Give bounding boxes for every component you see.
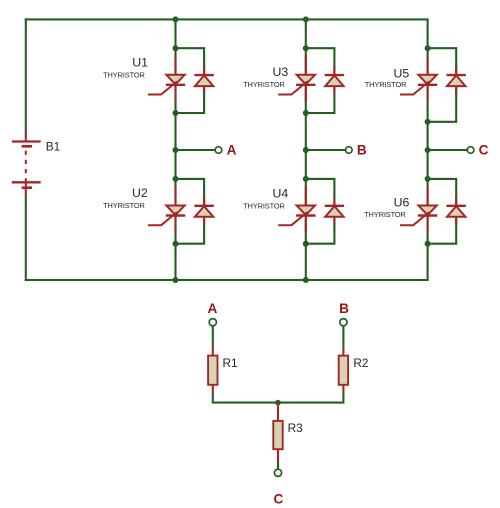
terminal C (load) (274, 469, 281, 476)
junction U2 bottom (173, 241, 179, 247)
thyristor U1 gate (148, 81, 177, 94)
svg-text:A: A (227, 143, 237, 158)
wire R3 to terminal C (277, 462, 279, 469)
thyristor U3 cathode bar (296, 84, 315, 86)
wire U4 cathode lead (red) (305, 215, 307, 233)
wire U3 parallel branch loop (306, 48, 335, 113)
wire U4 parallel branch loop (306, 179, 335, 244)
junction bottom bus / leg A (173, 277, 179, 283)
wire U3 cathode lead (red) (305, 84, 307, 102)
wire U5 parallel branch loop (428, 48, 457, 122)
wire U4 anode lead (red) (305, 186, 307, 206)
svg-text:THYRISTOR: THYRISTOR (243, 201, 285, 210)
svg-text:THYRISTOR: THYRISTOR (365, 80, 407, 89)
diode of U2 body (195, 206, 213, 217)
junction U4 top (303, 176, 309, 182)
wire bottom bus (25, 279, 429, 281)
junction U6 bottom (425, 241, 431, 247)
battery B1 plate long bottom (12, 181, 41, 183)
wire phase A leg vertical (174, 19, 176, 280)
battery B1 bottom lead (red) (25, 182, 27, 196)
thyristor U1 body (166, 75, 184, 85)
svg-text:U2: U2 (132, 186, 148, 200)
svg-text:C: C (479, 143, 489, 158)
diode of U2 cathode bar (194, 205, 213, 207)
junction U5 bottom (425, 119, 431, 125)
junction U1 top (173, 45, 179, 51)
terminal A (load) (209, 319, 216, 326)
battery B1 dashed cells (25, 151, 27, 183)
diode of U1 body (195, 75, 213, 86)
diode of U4 cathode bar (325, 205, 344, 207)
svg-text:B: B (339, 301, 349, 316)
wire U6 diode leads (red) (455, 197, 457, 206)
wire U6 parallel branch loop (428, 179, 457, 244)
svg-text:R3: R3 (288, 421, 304, 435)
thyristor U5 body (418, 75, 436, 85)
thyristor U5 cathode bar (418, 84, 437, 86)
wire phase B leg vertical (305, 19, 307, 280)
wire R2 to star bus (278, 394, 343, 403)
thyristor U2 gate (148, 212, 177, 225)
svg-text:U5: U5 (393, 67, 409, 81)
thyristor U4 gate (278, 212, 307, 225)
thyristor U2 cathode bar (166, 214, 185, 216)
svg-text:R2: R2 (353, 356, 368, 370)
battery B1 plate short top (22, 145, 32, 148)
diode of U3 cathode bar (325, 74, 344, 76)
resistor R2 (339, 356, 348, 385)
diode of U4 body (325, 206, 343, 217)
junction U2 top (173, 176, 179, 182)
diode of U5 cathode bar (447, 74, 466, 76)
wire left rail lower (battery to bottom bus) (25, 197, 27, 282)
thyristor U6 cathode bar (418, 214, 437, 216)
svg-text:C: C (273, 492, 283, 507)
svg-text:U4: U4 (272, 187, 288, 201)
thyristor U5 gate (400, 81, 429, 94)
svg-text:B1: B1 (46, 140, 60, 154)
junction U5 top (425, 45, 431, 51)
resistor R3 top lead (red) (277, 403, 279, 421)
svg-text:U1: U1 (132, 56, 148, 70)
thyristor U1 cathode bar (166, 84, 185, 86)
junction U3 bottom (303, 110, 309, 116)
wire top bus (25, 18, 429, 20)
terminal B (load) (340, 319, 347, 326)
thyristor U3 body (297, 75, 315, 85)
thyristor U6 gate (400, 212, 429, 225)
diode of U6 body (447, 206, 465, 217)
svg-text:R1: R1 (223, 356, 238, 370)
junction top bus / leg A (173, 16, 179, 22)
wire node B stub (306, 149, 346, 151)
wire U1 cathode lead (red) (174, 84, 176, 102)
terminal node B (346, 147, 353, 154)
wire U6 anode lead (red) (427, 186, 429, 206)
battery B1 top lead (red) (25, 132, 27, 142)
battery B1 plate long top (12, 140, 41, 142)
diode of U5 body (447, 75, 465, 86)
terminal node A (215, 147, 222, 154)
junction node C (425, 147, 431, 153)
wire U5 cathode lead (red) (427, 84, 429, 102)
junction star point (275, 400, 281, 406)
wire U6 cathode lead (red) (427, 215, 429, 233)
wire U1 anode lead (red) (174, 55, 176, 75)
thyristor U3 gate (278, 81, 307, 94)
svg-text:THYRISTOR: THYRISTOR (103, 201, 145, 210)
resistor R1 (208, 356, 217, 385)
svg-text:A: A (207, 301, 217, 316)
junction U4 bottom (303, 241, 309, 247)
svg-text:THYRISTOR: THYRISTOR (243, 80, 285, 89)
junction U1 bottom (173, 110, 179, 116)
resistor R3 (273, 421, 282, 449)
wire phase C leg vertical (427, 19, 429, 280)
wire U4 diode leads (red) (333, 197, 335, 206)
junction node B (303, 147, 309, 153)
wire U2 diode leads (red) (203, 197, 205, 206)
wire U3 diode leads (red) (333, 66, 335, 75)
terminal node C (467, 147, 474, 154)
resistor R1 bottom lead (red) (212, 385, 214, 394)
junction U3 top (303, 45, 309, 51)
svg-text:U6: U6 (394, 196, 410, 210)
wire U3 anode lead (red) (305, 55, 307, 75)
battery B1 plate short bottom (22, 186, 32, 189)
diode of U1 cathode bar (194, 74, 213, 76)
thyristor U6 body (418, 206, 436, 216)
junction node A (173, 147, 179, 153)
svg-text:THYRISTOR: THYRISTOR (364, 210, 406, 219)
wire node C stub (428, 149, 468, 151)
resistor R2 top lead (red) (342, 347, 344, 356)
wire U2 anode lead (red) (174, 186, 176, 206)
svg-text:B: B (357, 143, 367, 158)
wire U1 parallel branch loop (176, 48, 205, 113)
svg-text:THYRISTOR: THYRISTOR (103, 70, 145, 79)
wire U1 diode leads (red) (203, 66, 205, 75)
diode of U3 body (325, 75, 343, 86)
resistor R1 top lead (red) (212, 347, 214, 356)
wire left rail upper (to battery) (25, 18, 27, 131)
wire U5 diode leads (red) (455, 66, 457, 75)
thyristor U4 cathode bar (296, 214, 315, 216)
resistor R3 bottom lead (red) (277, 449, 279, 462)
junction bottom bus / leg B (303, 277, 309, 283)
resistor R2 bottom lead (red) (342, 385, 344, 394)
wire node A stub (176, 149, 216, 151)
wire terminal B to R2 (342, 326, 344, 347)
junction top bus / leg B (303, 16, 309, 22)
thyristor U4 body (297, 206, 315, 216)
wire U2 cathode lead (red) (174, 215, 176, 233)
thyristor U2 body (166, 206, 184, 216)
wire U5 anode lead (red) (427, 55, 429, 75)
junction U6 top (425, 176, 431, 182)
wire U2 parallel branch loop (176, 179, 205, 244)
diode of U6 cathode bar (447, 205, 466, 207)
wire R1 to star bus (213, 394, 278, 403)
wire terminal A to R1 (212, 326, 214, 347)
svg-text:U3: U3 (272, 65, 288, 79)
